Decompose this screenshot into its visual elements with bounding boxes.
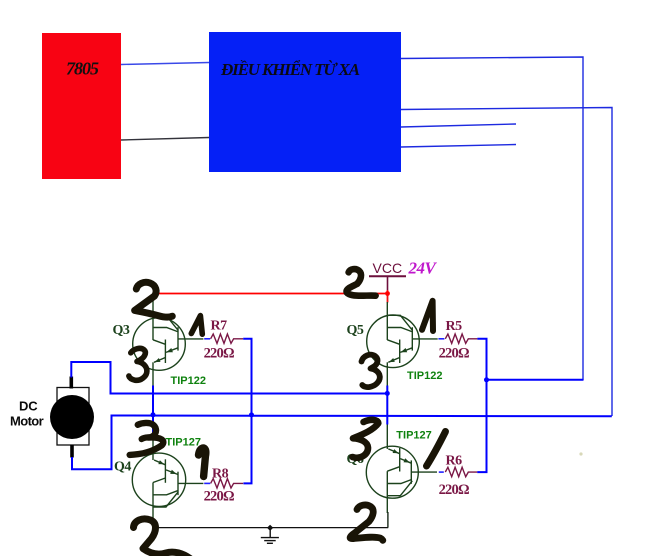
svg-text:220Ω: 220Ω [204,488,234,504]
svg-text:TIP127: TIP127 [166,436,201,448]
wire output1 to R5/R6 node [487,379,584,381]
wire stub blue at R5 left [438,338,444,340]
wire stub blue at R6 left [439,471,444,473]
arrowheads Q3 [166,348,173,352]
motor terminal stubs [70,377,74,389]
node VCC junction dot [385,291,390,296]
svg-text:TIP127: TIP127 [396,429,431,441]
node dot R5/R6 junction [484,377,489,382]
svg-text:ĐIỀU KHIỂN TỪ XA: ĐIỀU KHIỂN TỪ XA [220,59,360,79]
VCC rail symbol [369,276,406,290]
wire Q4 emitter from bridge node (blue) [152,415,154,434]
wire motor top to Q5/Q6 node [71,362,387,394]
wire blue box output 2 [401,108,612,417]
arrowheads Q6 [393,449,399,453]
svg-text:R7: R7 [211,318,228,333]
svg-text:R8: R8 [212,466,229,481]
wire Q6 collector to ground (black) [387,512,389,528]
wire stub blue at R7 left [204,338,210,340]
faint speck [579,452,582,455]
svg-text:VCC: VCC [373,260,403,276]
resistor R8 [211,479,244,488]
transistor Q5 TIP122 (NPN darlington) [367,302,438,386]
wire VCC stub down to Q5 [387,290,389,303]
node dot Q3/Q4 junction [151,412,156,417]
wire R5 to right vertical down to R6 [477,339,486,472]
pin number 1 annotation (Q3 base / R7) [191,316,202,335]
pin number 3 annotation (Q6 emitter) [353,420,379,458]
transistor Q4 TIP127 (PNP darlington) [132,432,203,528]
pin number 3 annotation (Q5 emitter) [362,355,380,387]
ground symbol [261,528,279,543]
wire Q5 emitter to motor-top line (blue) [386,386,388,425]
wire blue box output 3 (open end) [401,124,516,127]
svg-text:TIP122: TIP122 [171,375,206,387]
arrowheads Q4 [158,460,164,464]
svg-text:Motor: Motor [10,414,44,429]
pin number 3 annotation (Q3 emitter) [129,348,147,380]
svg-text:220Ω: 220Ω [439,345,469,361]
wire ground rail [153,527,388,529]
wire stub blue at R8 left [204,482,210,484]
svg-text:TIP122: TIP122 [407,370,442,382]
pin number 2 annotation (Q6 collector) [350,505,383,540]
svg-text:Q3: Q3 [113,323,130,338]
svg-text:R6: R6 [446,453,463,468]
arrowheads Q5 [401,348,408,352]
svg-text:220Ω: 220Ω [204,345,234,361]
svg-text:7805: 7805 [66,59,99,79]
block remote control (blue box) [209,32,401,172]
resistor R6 [445,467,477,476]
wire 7805 to blue box (blue) [121,63,209,65]
transistor Q3 TIP122 (NPN darlington) [133,295,204,386]
pin number 2 annotation (Q4 collector) [134,519,191,556]
pin number 2 annotation (Q5 collector / VCC) [346,269,375,296]
pin number 1 annotation (Q5 base / R5) [422,301,433,331]
svg-text:220Ω: 220Ω [439,482,469,498]
pin number 3 annotation (Q4 emitter) [130,423,164,455]
wire VCC red rail [153,293,388,295]
resistor R7 [211,334,244,343]
wire motor bottom to bridge line [72,416,612,470]
pin number 1 annotation (Q4 base / R8) [199,448,206,477]
svg-text:Q5: Q5 [347,323,364,338]
transistor Q6 TIP127 (PNP darlington) [366,424,437,513]
wire blue box output 4 (open end) [401,145,516,148]
svg-text:24V: 24V [408,259,438,278]
pin number 1 annotation (Q6 base / R6) [427,432,446,467]
pin number 2 annotation (Q3 collector) [135,282,173,317]
wire Q3 emitter to bridge node (blue) [152,386,154,416]
svg-text:DC: DC [19,399,38,414]
node dot R7/R8 junction [249,412,254,417]
svg-text:R5: R5 [446,319,463,334]
wire blue box output 1 [401,57,583,380]
resistor R5 [445,334,477,343]
node dot Q5 emitter / motor top [385,391,390,396]
wire R7 to right vertical [243,339,251,484]
svg-text:Q4: Q4 [114,460,131,475]
DC motor circle [57,388,89,446]
wire 7805 to blue box (black) [121,138,209,141]
block 7805 (red box) [42,33,121,179]
